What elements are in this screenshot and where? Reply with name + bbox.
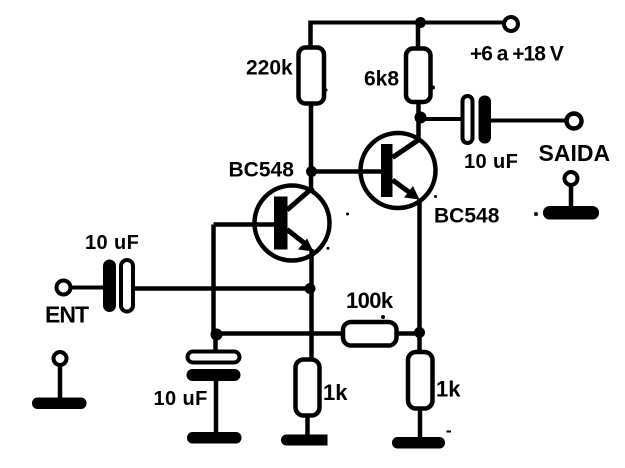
transistor Q2 BC548 <box>361 133 436 208</box>
svg-text:BC548: BC548 <box>229 159 295 182</box>
speck near SAIDA ground <box>534 212 538 216</box>
capacitor C3 plate filled <box>479 96 492 144</box>
wire R4 to ground <box>305 416 310 438</box>
svg-text:+6 a +18 V: +6 a +18 V <box>470 43 564 66</box>
speck near R5 ground <box>447 431 452 433</box>
svg-text:ENT: ENT <box>45 302 89 328</box>
wire ENT to C1 <box>70 286 104 290</box>
resistor R1 220k <box>299 48 325 104</box>
wire feedback node to R3 <box>216 331 345 336</box>
wire 6k8 bottom to Q2 collector <box>416 102 421 140</box>
resistor R4 1k left <box>296 360 320 416</box>
resistor R5 1k right <box>408 352 433 409</box>
ground C2 bar <box>187 432 242 444</box>
ground R4 bar <box>281 434 328 445</box>
wire Q1 collector node to Q2 base <box>311 169 381 174</box>
wire R1 bottom to Q1 collector node <box>309 103 314 188</box>
terminal SAIDA <box>567 114 582 129</box>
node Q1 collector junction <box>306 166 317 177</box>
terminal ENT <box>57 281 71 295</box>
capacitor C1 plate hollow <box>121 260 133 312</box>
ground ENT <box>32 352 87 409</box>
svg-text:6k8: 6k8 <box>364 68 399 91</box>
node Q2 collector junction <box>415 112 427 124</box>
capacitor C3 plate hollow <box>463 96 473 143</box>
speck below right of Q1 <box>327 247 330 250</box>
wire left vertical base to feedback node <box>211 225 216 335</box>
svg-text:1k: 1k <box>323 380 348 405</box>
capacitor C2 10uF stub <box>213 334 218 352</box>
ground R5 bar <box>392 437 445 449</box>
svg-text:SAIDA: SAIDA <box>539 140 611 166</box>
svg-text:100k: 100k <box>346 288 394 313</box>
capacitor C2 plate hollow <box>188 352 240 363</box>
wire C3 to SAIDA <box>491 119 566 123</box>
svg-text:220k: 220k <box>246 57 293 80</box>
wire C2 to ground <box>214 380 219 433</box>
terminal +V <box>504 17 518 31</box>
svg-text:1k: 1k <box>436 377 461 402</box>
node Q2 emitter junction <box>414 327 425 338</box>
svg-text:10 uF: 10 uF <box>85 232 139 254</box>
speck near 220k <box>325 89 328 92</box>
wire R3 to Q2 emitter node <box>397 331 421 336</box>
wire Q1 base <box>214 222 276 227</box>
speck right of Q2 <box>434 195 437 198</box>
capacitor C1 10uF plate filled <box>103 260 116 313</box>
wire stub to R1 top <box>308 21 313 49</box>
speck right of 6k8 <box>431 86 435 90</box>
node feedback junction dot <box>211 329 223 341</box>
node supply junction dot <box>415 17 426 28</box>
wire C1 to Q1 emitter node <box>133 286 310 291</box>
transistor Q1 BC548 <box>255 186 330 261</box>
ground SAIDA <box>543 172 599 220</box>
capacitor C2 plate filled <box>187 369 241 381</box>
resistor R2 6k8 <box>406 49 431 103</box>
wire Q2 collector to C3 <box>421 117 464 121</box>
node Q1 emitter junction <box>305 283 316 294</box>
speck right of Q1 <box>346 213 349 216</box>
resistor R3 100k <box>343 322 397 346</box>
wire R5 to ground <box>418 409 423 441</box>
wire Q1 emitter down <box>309 249 314 360</box>
svg-text:BC548: BC548 <box>434 205 500 228</box>
wire top supply rail <box>310 21 503 25</box>
wire 6k8 top stub <box>416 23 421 50</box>
wire Q2 emitter down <box>417 199 422 352</box>
svg-text:10 uF: 10 uF <box>464 151 518 173</box>
speck above 100k <box>381 315 385 319</box>
svg-text:10 uF: 10 uF <box>154 388 208 410</box>
